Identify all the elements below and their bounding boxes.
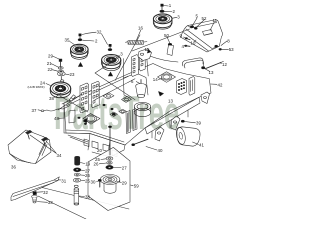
belt cover 10 (181, 20, 223, 52)
deck front-right skirt (145, 97, 200, 138)
blade 31 (11, 177, 59, 201)
roller 41 (175, 127, 200, 147)
leader 59 (131, 184, 134, 187)
bolt 20 through box top (108, 126, 111, 155)
svg-text:37: 37 (32, 108, 37, 113)
carriage bolts 34 (26, 130, 49, 146)
svg-text:32: 32 (43, 190, 48, 195)
rod 12 (202, 61, 224, 69)
handle loop rear right (182, 58, 203, 68)
rhombus pads on deck (103, 93, 132, 117)
svg-text:42: 42 (218, 82, 223, 87)
arrow on deck left (83, 118, 88, 123)
svg-text:29: 29 (48, 53, 53, 58)
square plate w/ circle left-center (83, 114, 100, 125)
screw 9/4 left (185, 38, 190, 47)
spindle pulley 24 (50, 82, 70, 98)
deck left wall hole (69, 110, 75, 123)
cover screws 5/52 (190, 26, 197, 30)
svg-text:19: 19 (85, 161, 90, 166)
leader 16 (137, 30, 141, 40)
svg-text:13: 13 (209, 70, 214, 75)
svg-text:39: 39 (196, 120, 201, 125)
left keeper plates (belt guards) (80, 81, 99, 113)
leader 31/32/33 (37, 180, 61, 203)
small washer (74, 185, 78, 187)
leader 38 pulley24 (55, 94, 62, 98)
svg-text:26: 26 (85, 173, 90, 178)
svg-text:14: 14 (153, 77, 158, 82)
rear keeper plates center (124, 52, 149, 98)
deck front feet (68, 134, 125, 158)
svg-text:34: 34 (57, 153, 62, 158)
leaders 21/22/23/24/29 (46, 56, 69, 85)
long leader lines (95, 57, 135, 100)
spindle housing 29 (100, 175, 120, 194)
washer 25 left (73, 178, 81, 182)
svg-text:(HUB 38WF): (HUB 38WF) (28, 85, 45, 89)
leader 1/2/3 engine (164, 6, 177, 19)
leader 32 (82, 32, 108, 44)
cover screws 8/53 (215, 45, 222, 50)
leader arrows to belts (78, 50, 151, 77)
spindle plate right 14 (158, 72, 176, 83)
deck main body (62, 64, 211, 146)
svg-text:29: 29 (122, 180, 127, 185)
blade bolt 33 (32, 191, 38, 203)
shaft 38 (74, 188, 79, 205)
svg-text:16: 16 (138, 26, 143, 31)
watermark PartsTree (54, 87, 179, 139)
leader 19-38 left (79, 163, 85, 197)
svg-text:33: 33 (48, 200, 53, 205)
svg-text:41: 41 (199, 142, 204, 147)
leader 5/52/11/10 (192, 18, 214, 42)
bolt above pulley 3b (108, 44, 112, 50)
bracket tab 39 (171, 116, 184, 130)
svg-text:11: 11 (213, 18, 218, 23)
right slotted plates (177, 77, 195, 96)
svg-text:10: 10 (191, 41, 196, 46)
leader 37/48 (38, 110, 65, 119)
bracket tab 40 (132, 127, 164, 146)
svg-text:21: 21 (47, 61, 52, 66)
bolt above pulley 35 (78, 34, 82, 41)
svg-text:35: 35 (65, 38, 70, 43)
leader 50/15 (147, 37, 171, 51)
svg-text:50: 50 (164, 33, 169, 38)
idler arm 15 (138, 49, 178, 62)
washer 26 box (107, 161, 112, 164)
deck surface bolts (78, 104, 113, 124)
leader 14/6 (136, 79, 162, 84)
svg-text:PartsTree: PartsTree (54, 87, 179, 139)
svg-text:23: 23 (70, 72, 75, 77)
svg-text:59: 59 (134, 184, 139, 189)
washer 25 box (106, 157, 113, 160)
hardware stack 29/21/22 (57, 59, 65, 80)
washer 27 box (106, 165, 113, 169)
svg-text:38: 38 (85, 194, 90, 199)
cup item 6 (136, 80, 147, 98)
svg-text:22: 22 (48, 67, 53, 72)
svg-text:32: 32 (97, 30, 102, 35)
front wall plates (126, 109, 137, 134)
svg-text:36: 36 (11, 165, 16, 170)
linkage 37 (41, 106, 70, 112)
leader 12/13 (204, 63, 222, 72)
engine pulley 3 (153, 14, 172, 29)
washer 23 (61, 80, 64, 82)
callout lines to inset box (38, 188, 129, 220)
svg-text:40: 40 (158, 148, 163, 153)
spacer 19 (75, 156, 80, 165)
inset box 59 (88, 147, 130, 210)
bracket tab lower right (201, 92, 210, 104)
washer 27 left (74, 168, 81, 172)
idler pulley 35 (71, 44, 89, 59)
front spindle cup on deck (134, 102, 150, 116)
link 50 (167, 43, 174, 55)
svg-text:31: 31 (61, 178, 66, 183)
svg-text:52: 52 (202, 16, 207, 21)
leader 2/3/35 idlers (70, 40, 120, 57)
leader 9/4/8/53 (184, 37, 229, 49)
washer 26 left (74, 173, 80, 176)
leaders bottom right (146, 122, 199, 151)
arrow near node 13 (159, 92, 164, 97)
belt guide wire 17 (69, 95, 75, 101)
leader 42 (211, 83, 218, 85)
bolt 1 (160, 4, 164, 13)
spring 16 (126, 41, 148, 45)
svg-text:20: 20 (97, 148, 102, 153)
chute 36 (8, 130, 51, 164)
leaders box parts (97, 159, 122, 183)
idler pulley 3b (102, 55, 121, 71)
svg-text:26: 26 (94, 162, 99, 167)
leader 34 (30, 135, 57, 154)
svg-text:15: 15 (145, 47, 150, 52)
svg-text:53: 53 (229, 47, 234, 52)
bolt 30 (98, 179, 101, 187)
svg-text:12: 12 (222, 62, 227, 67)
svg-text:30: 30 (91, 179, 96, 184)
svg-text:27: 27 (122, 165, 127, 170)
